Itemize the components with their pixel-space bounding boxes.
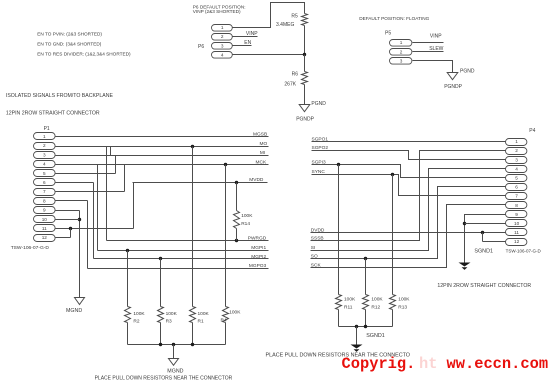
svg-text:3: 3: [515, 157, 518, 162]
junction pin10 tie (P4): [463, 222, 466, 225]
svg-text:P6: P6: [198, 44, 204, 50]
net label PWRGD: [248, 236, 267, 242]
label MGND (bank): [167, 369, 183, 375]
value 100K (R14): [241, 213, 253, 219]
svg-text:VINP (2&3 SHORTED): VINP (2&3 SHORTED): [193, 9, 241, 14]
note ISOLATED SIGNALS FROM/TO BACKPLANE: [6, 93, 114, 99]
value 100K (R13): [398, 296, 410, 302]
svg-text:1: 1: [400, 40, 403, 45]
wire pin9/10 drop to MGND: [79, 211, 81, 298]
label PGNDP (P5): [444, 84, 462, 90]
wire R11 bottom: [338, 310, 340, 327]
junction pin11/pin12 tie: [69, 227, 72, 230]
svg-text:100K: 100K: [241, 213, 253, 219]
svg-text:R1: R1: [198, 318, 204, 324]
wire R2 bottom: [127, 323, 129, 345]
value 100K (R11): [344, 296, 356, 302]
svg-text:PLACE PULL DOWN RESISTORS NEAR: PLACE PULL DOWN RESISTORS NEAR THE CONNE…: [95, 376, 233, 382]
wire R13 bottom: [392, 310, 394, 327]
net label SGPO1: [312, 136, 329, 142]
label TSW-106-07-G-D (P1): [11, 245, 50, 251]
note PLACE PULL DOWN RESISTORS (right): [266, 352, 410, 358]
wire SYNC to P4 pin7: [312, 175, 506, 196]
watermark ww.eccn.com: [447, 355, 549, 373]
net label MGSB: [253, 131, 267, 137]
wire R3 bottom: [160, 323, 162, 345]
junction bus/R12: [364, 325, 367, 328]
label R6: [292, 72, 299, 78]
svg-text:8: 8: [515, 203, 518, 208]
net label MI: [260, 150, 265, 156]
svg-text:12: 12: [42, 235, 48, 240]
wire R12 bottom: [365, 310, 367, 327]
svg-text:100K: 100K: [344, 296, 356, 302]
ground SGND1 (bank): [351, 345, 363, 352]
wire pin11 stub: [56, 228, 134, 230]
junction SYNC/R13: [391, 173, 394, 176]
junction bus/R1: [191, 343, 194, 346]
svg-text:DEFAULT POSITION: FLOATING: DEFAULT POSITION: FLOATING: [359, 16, 429, 21]
svg-text:9: 9: [43, 208, 46, 213]
junction DVDD/pin12: [481, 231, 484, 234]
ground SGND1 (P4 pins9/10): [459, 263, 471, 270]
net label MGPI1: [251, 245, 266, 251]
svg-text:EN: EN: [244, 40, 251, 46]
junction SGPI3/R11: [337, 163, 340, 166]
svg-text:1: 1: [221, 25, 224, 30]
svg-text:8: 8: [43, 198, 46, 203]
label PGND (P5): [460, 69, 475, 75]
wire pin7 jog up to MCK: [124, 165, 126, 192]
wire pin4 drop to MGPI1: [97, 165, 99, 251]
resistor R14: [234, 211, 240, 229]
svg-text:P5: P5: [385, 30, 391, 36]
svg-text:P4: P4: [529, 128, 535, 134]
wire R5 bottom to node: [304, 26, 306, 55]
svg-text:100K: 100K: [166, 311, 178, 317]
wire pin2 drop to PWRGD: [106, 147, 108, 241]
note P6 DEFAULT POSITION: [193, 4, 246, 9]
ground PGND (P5): [447, 73, 458, 80]
svg-text:4: 4: [43, 162, 46, 167]
wire R1 bottom: [192, 323, 194, 345]
svg-text:SLEW: SLEW: [429, 46, 443, 52]
svg-text:ISOLATED SIGNALS FROM/TO BACKP: ISOLATED SIGNALS FROM/TO BACKPLANE: [6, 93, 114, 99]
junction SO/R12: [364, 257, 367, 260]
svg-text:PGND: PGND: [460, 69, 475, 75]
wire MGPI1: [98, 250, 269, 252]
label R5: [291, 13, 298, 19]
wire SGPO1 to P4 pin1: [312, 141, 506, 143]
svg-text:PGND: PGND: [311, 101, 326, 107]
net label EN: [244, 40, 251, 46]
label PGNDP: [296, 117, 314, 123]
connector P4: [506, 139, 527, 246]
svg-text:EN TO GND: (3&4 SHORTED): EN TO GND: (3&4 SHORTED): [37, 42, 102, 47]
svg-text:6: 6: [43, 180, 46, 185]
junction P6 node: [303, 53, 306, 56]
junction MVDD/R14: [235, 181, 238, 184]
wire P5 pin2 SLEW stub: [413, 51, 444, 53]
svg-text:2: 2: [43, 143, 46, 148]
svg-text:3.4MEG: 3.4MEG: [276, 22, 294, 28]
note 12PIN 2ROW STRAIGHT CONNECTOR (left): [6, 111, 100, 117]
svg-text:PGNDP: PGNDP: [444, 84, 462, 90]
wire pin8 drop to MGPO3: [87, 201, 89, 269]
wire P4 pin10 stub: [465, 223, 506, 225]
value 100K (R12): [371, 296, 383, 302]
resistor R5: [302, 14, 308, 26]
svg-text:ht: ht: [419, 355, 437, 373]
resistor R13: [390, 295, 396, 310]
junction MGPI2/R3: [159, 257, 162, 260]
svg-text:MGPI2: MGPI2: [251, 254, 266, 260]
svg-text:R12: R12: [371, 304, 380, 310]
svg-text:ww.eccn.com: ww.eccn.com: [447, 355, 549, 373]
svg-text:R4: R4: [221, 317, 227, 323]
value 100K (R2): [133, 311, 145, 317]
label R2: [133, 318, 139, 324]
wire pin6 stub: [56, 182, 94, 184]
svg-text:6: 6: [515, 185, 518, 190]
net label MVDD: [249, 177, 264, 183]
wire R3 top: [160, 259, 162, 307]
wire bottom bus (right bank): [339, 326, 393, 328]
wire R12 top: [365, 259, 367, 295]
wire MCK (P1 pin4 row): [56, 164, 269, 166]
svg-text:MCK: MCK: [256, 159, 267, 165]
junction MGPI1/R2: [126, 249, 129, 252]
wire pin10 stub: [56, 219, 80, 221]
note EN TO RES DIVIDER: [37, 51, 131, 56]
net label DVDD: [311, 227, 325, 233]
label R4: [221, 317, 227, 323]
svg-text:SGPO2: SGPO2: [312, 145, 329, 151]
svg-text:11: 11: [514, 230, 519, 235]
resistor R2: [125, 307, 131, 323]
svg-text:MI: MI: [260, 150, 265, 156]
net label VINP (P5): [430, 33, 442, 39]
svg-text:3: 3: [221, 43, 224, 48]
svg-text:TSW-106-07-G-D: TSW-106-07-G-D: [506, 248, 542, 253]
wire SO to P4 pin6: [311, 187, 506, 259]
svg-text:EN TO PVIN: (2&3 SHORTED): EN TO PVIN: (2&3 SHORTED): [37, 32, 102, 37]
net label MGPO3: [249, 263, 267, 269]
label P1: [44, 126, 50, 132]
svg-text:MGPI1: MGPI1: [251, 245, 266, 251]
label SGND1 (bank): [366, 333, 385, 339]
svg-text:TSW-106-07-G-D: TSW-106-07-G-D: [11, 245, 50, 251]
wire MGPO3: [88, 268, 269, 270]
junction MO/R1: [191, 145, 194, 148]
svg-text:7: 7: [43, 189, 46, 194]
label R3: [166, 318, 172, 324]
svg-text:267K: 267K: [284, 81, 296, 87]
wire pin9 stub: [56, 210, 80, 212]
ground MGND (bank): [169, 359, 179, 366]
svg-text:SGND1: SGND1: [366, 333, 385, 339]
value 3.4MEG: [276, 22, 294, 28]
net label SLEW: [429, 46, 443, 52]
note PLACE PULL DOWN RESISTORS (left): [95, 376, 233, 382]
svg-text:3: 3: [43, 152, 46, 157]
svg-text:100K: 100K: [371, 296, 383, 302]
wire pin5 jog up to MI: [115, 156, 117, 174]
svg-text:100K: 100K: [198, 311, 210, 317]
svg-text:100K: 100K: [133, 311, 145, 317]
wire MVDD to R14: [236, 183, 238, 211]
svg-text:MGND: MGND: [167, 369, 183, 375]
wire MI (P1 pin3 row): [56, 155, 269, 157]
wire P6 pin3 EN stub: [233, 45, 252, 47]
resistor R3: [158, 307, 164, 323]
wire SGND1 stem: [356, 327, 358, 345]
value 267K: [284, 81, 296, 87]
svg-text:10: 10: [514, 221, 520, 226]
net label SSSB: [311, 236, 324, 242]
note EN TO PVIN: [37, 32, 102, 37]
svg-text:1: 1: [515, 139, 518, 144]
wire MVDD: [133, 182, 268, 184]
net label SGPI3: [312, 160, 326, 166]
net label SCK: [311, 262, 322, 268]
junction bus/SGND1 stem: [355, 325, 358, 328]
svg-text:4: 4: [515, 166, 518, 171]
wire R13 top: [392, 175, 394, 295]
svg-text:VINP: VINP: [246, 31, 258, 37]
wire pin3 jog up: [110, 147, 112, 156]
svg-text:11: 11: [42, 226, 47, 231]
svg-text:5: 5: [43, 171, 46, 176]
resistor R11: [336, 295, 342, 310]
svg-text:PWRGD: PWRGD: [248, 236, 267, 242]
net label SO: [311, 254, 318, 260]
note EN TO GND: [37, 42, 102, 47]
wire pin5 stub: [56, 173, 116, 175]
junction bus/MGND stem: [172, 343, 175, 346]
watermark Copyrig: [342, 355, 416, 373]
wire P4 pin12 stub: [483, 241, 506, 243]
wire R4 top: [225, 165, 227, 307]
connector P6: [212, 25, 233, 59]
net label SYNC: [312, 169, 326, 175]
value 100K (R1): [198, 311, 210, 317]
wire P6 pin4 to node: [233, 54, 305, 56]
label P6: [198, 44, 204, 50]
svg-text:100K: 100K: [229, 310, 241, 316]
wire pin12 riser (P4): [482, 233, 484, 242]
net label MCK: [256, 159, 267, 165]
note 12PIN 2ROW STRAIGHT CONNECTOR (right): [437, 283, 531, 289]
value 100K (R4): [229, 310, 241, 316]
wire SGPO2 to P4 pin3: [312, 151, 506, 160]
watermark faint ht: [419, 355, 437, 373]
ground MGND (pin9/10): [75, 298, 85, 305]
svg-text:SGND1: SGND1: [474, 248, 493, 254]
svg-text:1: 1: [43, 134, 46, 139]
wire PWRGD: [107, 240, 269, 242]
label R14: [241, 221, 250, 227]
net label VINP: [246, 31, 258, 37]
label MGND (pin9/10): [66, 308, 82, 314]
net label SI: [311, 245, 316, 251]
svg-text:MGPO3: MGPO3: [249, 263, 267, 269]
svg-text:100K: 100K: [398, 296, 410, 302]
svg-text:R13: R13: [398, 304, 407, 310]
svg-text:2: 2: [515, 148, 518, 153]
svg-text:R2: R2: [133, 318, 139, 324]
svg-text:3: 3: [400, 59, 403, 64]
svg-text:5: 5: [515, 176, 518, 181]
note DEFAULT POSITION FLOATING: [359, 16, 429, 21]
ground PGND (P6 divider): [299, 105, 310, 112]
wire P6 pin2 VINP stub: [233, 36, 258, 38]
svg-text:12PIN 2ROW STRAIGHT CONNECTOR: 12PIN 2ROW STRAIGHT CONNECTOR: [437, 283, 531, 289]
wire MO (P1 pin2 row): [56, 146, 269, 148]
svg-text:2: 2: [221, 34, 224, 39]
resistor R12: [363, 295, 369, 310]
wire R1 top: [192, 147, 194, 307]
wire R2 top: [127, 251, 129, 307]
svg-text:R5: R5: [291, 13, 298, 19]
wire R6 to PGND: [304, 85, 306, 105]
wire P5 pin1 VINP stub: [413, 42, 444, 44]
net label SGPO2: [312, 145, 329, 151]
svg-text:12: 12: [514, 239, 520, 244]
label P4: [529, 128, 535, 134]
wire P4 pin9 to SGND1: [465, 215, 506, 263]
wire R11 top: [338, 165, 340, 295]
connector P1: [34, 133, 56, 242]
wire MGPI2: [94, 258, 269, 260]
junction PWRGD/R14: [235, 239, 238, 242]
svg-text:MGND: MGND: [66, 308, 82, 314]
svg-text:MO: MO: [259, 141, 267, 147]
junction MCK/R4: [224, 163, 227, 166]
svg-text:PGNDP: PGNDP: [296, 117, 314, 123]
junction pin10 tie: [78, 218, 81, 221]
wire MGND stem: [173, 345, 175, 359]
wire P5 pin3 to ground: [413, 61, 453, 73]
connector P5: [390, 40, 412, 65]
wire pin11 jog up to MVDD: [133, 183, 135, 229]
svg-text:12PIN 2ROW STRAIGHT CONNECTOR: 12PIN 2ROW STRAIGHT CONNECTOR: [6, 111, 100, 117]
svg-text:7: 7: [515, 194, 518, 199]
wire pin8 stub: [56, 200, 88, 202]
net label MO: [259, 141, 267, 147]
svg-text:MGSB: MGSB: [253, 131, 267, 137]
svg-text:10: 10: [42, 217, 48, 222]
label PGND: [311, 101, 326, 107]
label R12: [371, 304, 380, 310]
resistor R1: [190, 307, 196, 323]
svg-text:4: 4: [221, 53, 224, 58]
wire SSSB to P4 pin2: [311, 151, 506, 241]
wire pin7 stub: [56, 191, 125, 193]
svg-text:Copyrig.: Copyrig.: [342, 355, 416, 373]
resistor R6: [302, 72, 308, 85]
wire R14 to PWRGD: [236, 229, 238, 241]
net label MGPI2: [251, 254, 266, 260]
label P5: [385, 30, 391, 36]
svg-text:R6: R6: [292, 72, 299, 78]
wire pin12 stub: [56, 237, 71, 239]
wire SI to P4 pin4: [311, 169, 506, 251]
svg-text:VINP: VINP: [430, 33, 442, 39]
wire SCK to P4 pin8: [311, 205, 506, 268]
svg-text:R14: R14: [241, 221, 250, 227]
wire MGSB (P1 pin1): [56, 136, 269, 138]
wire node to R6: [304, 55, 306, 72]
label TSW-106-07-G-D (P4): [506, 248, 542, 253]
resistor R4: [223, 307, 229, 323]
svg-text:EN TO RES DIVIDER: (1&2,3&4 SH: EN TO RES DIVIDER: (1&2,3&4 SHORTED): [37, 51, 131, 56]
svg-text:MVDD: MVDD: [249, 177, 264, 183]
wire R4 bottom: [225, 323, 227, 345]
label SGND1 (P4): [474, 248, 493, 254]
svg-text:P1: P1: [44, 126, 50, 132]
label R13: [398, 304, 407, 310]
label R1: [198, 318, 204, 324]
wire pin12 riser: [70, 229, 72, 238]
svg-text:2: 2: [400, 49, 403, 54]
note VINP (2&3 SHORTED): [193, 9, 241, 14]
svg-text:R3: R3: [166, 318, 172, 324]
junction bus/R3: [159, 343, 162, 346]
wire SGPI3 to P4 pin5: [312, 165, 506, 178]
wire bottom bus (left bank): [128, 344, 226, 346]
value 100K (R3): [166, 311, 178, 317]
wire P6 pin1 to R5 top: [233, 3, 305, 28]
svg-text:R11: R11: [344, 304, 353, 310]
svg-text:9: 9: [515, 212, 518, 217]
label R11: [344, 304, 353, 310]
wire DVDD to P4 pin11: [311, 232, 506, 234]
wire pin6 drop to MGPI2: [93, 183, 95, 259]
